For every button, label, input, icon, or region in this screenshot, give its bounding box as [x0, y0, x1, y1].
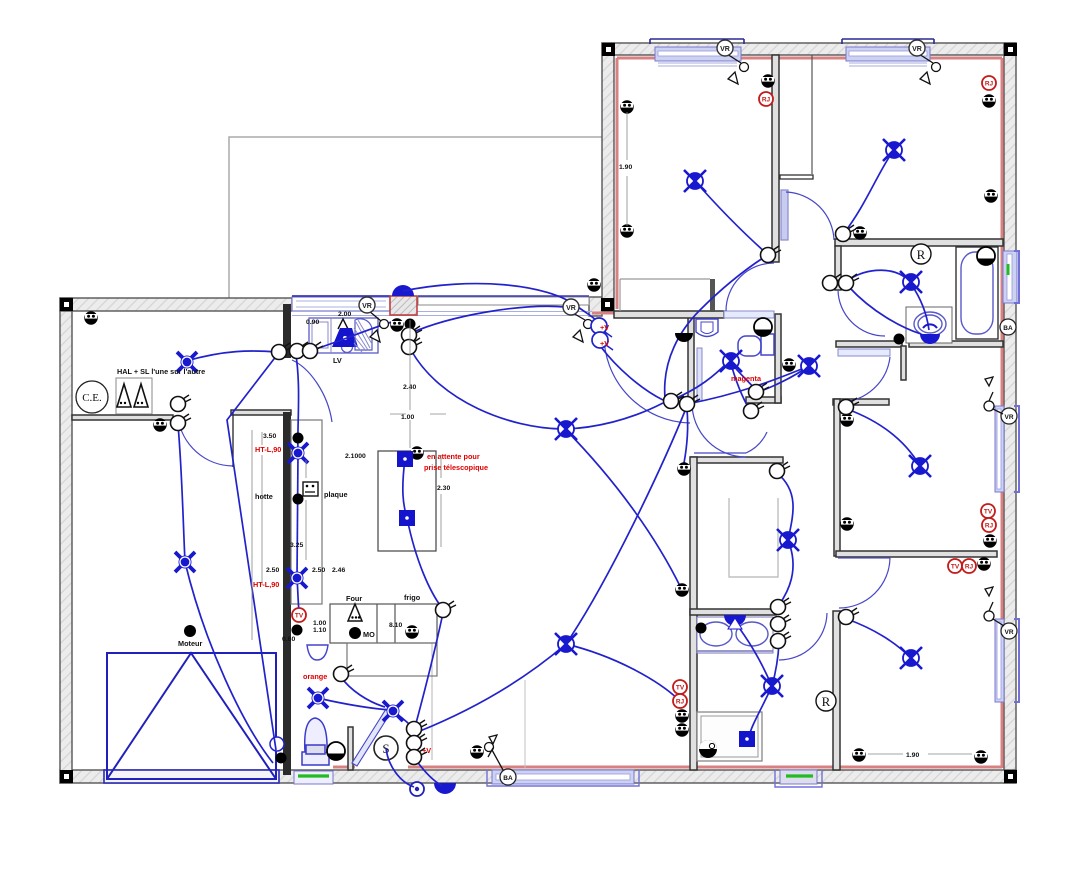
wire entry switch to applique [414, 757, 442, 786]
wire table squares [403, 459, 407, 518]
switch vjunction a [591, 318, 607, 334]
switch bath2 b [771, 615, 792, 632]
svg-text:2.00: 2.00 [338, 311, 351, 318]
blue square bath2 [739, 731, 755, 747]
switch kitchentop a [402, 326, 423, 343]
wire sejour light2 to entry applique [420, 644, 566, 731]
gray vertical line sejour-entry [524, 680, 526, 768]
switch hall b [171, 414, 192, 431]
window bottom bath2 [780, 770, 817, 784]
svg-text:1.10: 1.10 [313, 627, 326, 634]
svg-text:Four: Four [346, 594, 362, 603]
dot MO [349, 627, 361, 639]
socket sejour wall1 [677, 462, 690, 475]
WC washbasin small [696, 319, 718, 337]
triangles box hall [116, 378, 152, 414]
liner right wall [1001, 58, 1004, 768]
switch kitchen b [290, 342, 311, 359]
rj bedroom4 [962, 559, 976, 573]
socket sejour stack1 [675, 709, 688, 722]
svg-text:0.90: 0.90 [306, 319, 319, 326]
bathtub [956, 247, 998, 339]
switch vjunction b [592, 332, 608, 348]
svg-text:1.00: 1.00 [313, 620, 326, 627]
window bottom WC [294, 771, 333, 784]
socket bedroom2 right [984, 189, 997, 202]
BA circle bottom window [500, 769, 516, 785]
wire hall cluster to wc light [672, 363, 727, 400]
svg-text:VR: VR [1004, 629, 1013, 636]
wire sejour light1 to socket wall [565, 429, 681, 588]
wall: bedroom3 left [834, 399, 840, 556]
window wing top 1 [655, 47, 741, 61]
shower [697, 712, 762, 761]
washbasin bathroom1 [906, 307, 952, 343]
svg-text:+V: +V [600, 323, 609, 332]
tv bedroom3 [981, 504, 995, 518]
dot kitchen top [405, 319, 416, 330]
wall: main top right corner block [589, 297, 602, 316]
wire bedroom2 switch to light [844, 150, 894, 233]
lightf kitchen1 [288, 443, 308, 463]
wire bath1 light to applique [911, 284, 929, 330]
rj bedroom2 [982, 76, 996, 90]
light bathroom2 [761, 675, 783, 697]
outdoor applique entry [434, 783, 456, 794]
light sejour1 [555, 418, 577, 440]
svg-text:HAL + SL l'une sur l'autre: HAL + SL l'une sur l'autre [117, 367, 205, 376]
wire corridor light2 to bath switches [779, 540, 793, 605]
tv sejour [673, 680, 687, 694]
wire bedroom4 switch to light [847, 619, 911, 658]
wire hall switch to garage light [178, 425, 185, 562]
dot kitchen col3 [292, 625, 303, 636]
vr kitchen2 [563, 299, 579, 315]
switch bedroom4 [839, 608, 860, 625]
switch kitchen a [272, 343, 293, 360]
lightf hall [177, 352, 197, 372]
socket main topleft [84, 311, 97, 324]
wire stove sweep to hall [403, 284, 599, 326]
door cellier arc [178, 417, 233, 466]
wire hall cluster up to bedroom doors [665, 256, 766, 398]
svg-text:MO: MO [363, 630, 375, 639]
lightf garage [175, 552, 195, 572]
switch bedroom1 [761, 246, 782, 263]
light corridor2 [777, 529, 799, 551]
wire cluster down to socket [684, 410, 688, 463]
wall: stub below bath1 door [901, 346, 906, 380]
wall: cellier bottom right [231, 410, 291, 415]
wire switch to corridor light2 [777, 473, 793, 540]
svg-text:2.50: 2.50 [266, 567, 279, 574]
toilet entry WC [302, 718, 329, 765]
wire kitchen switches to sejour light1 [411, 350, 562, 429]
svg-text:HT-L,90: HT-L,90 [253, 580, 279, 589]
kitchen sink counter [309, 318, 378, 353]
socket sejour stack2 [675, 723, 688, 736]
flag right wall 1 [984, 401, 994, 411]
stove block on top wall [390, 285, 417, 315]
socket table [410, 446, 423, 459]
window bay sejour [418, 297, 589, 305]
light bedroom3 [909, 455, 931, 477]
lightf kitchen2 [287, 568, 307, 588]
wall: wing left [602, 43, 614, 311]
wall: bathroom1 left [835, 246, 841, 290]
plaque symbol [303, 482, 318, 496]
light sejour2 [555, 633, 577, 655]
window right wall 1 [1003, 251, 1017, 303]
window right wall 3 [995, 619, 1004, 702]
svg-text:R: R [822, 694, 831, 709]
wire kitchen light2 down [297, 578, 299, 611]
flag kitchen vr2 [573, 313, 585, 320]
kitchen counter along wall [291, 420, 437, 676]
door corridor leaf [694, 432, 767, 453]
blue square table1 [397, 451, 413, 467]
dot garage corner [276, 753, 287, 764]
socket right of wc [782, 358, 795, 371]
socket bedroom3 topleft [840, 413, 853, 426]
liner wing top [617, 57, 1002, 60]
svg-text:R: R [917, 247, 926, 262]
wire hall light to kitchen switches [186, 351, 277, 361]
wall: WC bottom [746, 397, 781, 403]
rj sejour [673, 694, 687, 708]
svg-text:plaque: plaque [324, 490, 348, 499]
switch bedroom2 [836, 225, 857, 242]
wire entry wc switch [341, 677, 385, 707]
wall: cellier bottom left [72, 415, 173, 420]
R circle bathroom1 [911, 244, 931, 264]
wall: entry stub [348, 727, 353, 770]
svg-text:LV: LV [333, 356, 342, 365]
dot kitchen col2 [293, 494, 304, 505]
svg-text:+V: +V [600, 339, 609, 348]
rj bedroom1 [759, 92, 773, 106]
svg-text:+V: +V [422, 746, 431, 755]
double washbasin bathroom2 [697, 617, 773, 653]
socket bedroom3 right [983, 534, 996, 547]
BA circle right wall 2 [1001, 623, 1017, 639]
wire kitchen switches to light1 [296, 355, 299, 453]
C.E. circle [76, 381, 108, 413]
door bathroom2 arc [779, 613, 827, 660]
terrace outline [229, 137, 602, 298]
wire table square2 to switch [407, 518, 442, 608]
liner main top kitchen [592, 312, 614, 315]
light bedroom2 [883, 139, 905, 161]
svg-text:Moteur: Moteur [178, 639, 202, 648]
switch hallcluster a [664, 392, 685, 409]
socket bedroom2 wallB [853, 226, 866, 239]
flag kitchen vr1 [369, 311, 381, 321]
wire bedroom3 switch to light [847, 409, 920, 466]
wall: left [60, 298, 72, 783]
wire entry stack to frigo switch [415, 613, 443, 727]
wire bath2 switch to light [772, 643, 779, 686]
applique bath2 triangle [728, 618, 742, 629]
gray L line sejour [729, 498, 778, 577]
socket frigo [405, 625, 418, 638]
door bedroom3 leaf [838, 349, 890, 356]
applique bath2 [724, 615, 746, 626]
vr kitchen1 [359, 297, 375, 313]
dot bath1 [894, 334, 905, 345]
socket bedroom4 bottom2 [974, 750, 987, 763]
door entry leaf [352, 709, 391, 766]
closet stub [710, 279, 715, 312]
svg-text:orange: orange [303, 672, 327, 681]
wall: main top left [60, 298, 292, 311]
door kitchen arc [292, 360, 332, 422]
wire S to outdoor light [386, 748, 414, 787]
switch kitchen c [303, 342, 324, 359]
switch hall a [171, 395, 192, 412]
big window bottom sejour [492, 770, 634, 784]
triangle four [348, 604, 362, 621]
light bedroom1 [684, 170, 706, 192]
table sejour [378, 451, 436, 551]
svg-text:BA: BA [1003, 325, 1013, 332]
switch frigo [436, 601, 457, 618]
wire garage light to door corner [185, 562, 273, 763]
R circle bathroom2 [816, 691, 836, 711]
wire wc light to switch [731, 363, 755, 389]
svg-text:2.46: 2.46 [332, 567, 345, 574]
light corridor1 [798, 355, 820, 377]
hdisc wc [754, 318, 772, 336]
switch garage corner [270, 737, 284, 751]
liner wing left [616, 58, 619, 309]
corner bottom-left [62, 772, 71, 781]
svg-text:magenta: magenta [731, 374, 762, 383]
socket bedroom1 top [761, 74, 774, 87]
wire hall to garage corner [227, 355, 277, 750]
VR right wall middle [1001, 408, 1017, 424]
lightf entry [383, 701, 403, 721]
svg-text:hotte: hotte [255, 492, 273, 501]
WC toilet middle [738, 334, 774, 356]
moteur dot [184, 625, 196, 637]
applique wc left [675, 333, 693, 342]
svg-text:1.90: 1.90 [619, 164, 632, 171]
wall: bedroom2 bottom [835, 239, 1003, 246]
flag wing vr1 [727, 54, 741, 63]
corner wing top-right [1006, 45, 1015, 54]
wire hall cluster to sejour light1 [565, 403, 663, 429]
shower drain circle [699, 740, 717, 758]
wire kitchen light1 to light2 [297, 453, 298, 578]
garage door band [104, 770, 279, 783]
corner wing top-left [604, 45, 613, 54]
switch kitchentop b [402, 338, 423, 355]
rj bedroom3 [982, 518, 996, 532]
svg-text:0.60: 0.60 [282, 636, 295, 643]
svg-text:en attente pour: en attente pour [427, 452, 480, 461]
switch bath1 a [823, 274, 844, 291]
lightf entrywc [308, 688, 328, 708]
lave vaisselle symbol [332, 319, 372, 352]
BA circle right wall 1 [1000, 319, 1016, 335]
flag wing vr2 [919, 54, 933, 63]
flag right wall 2 [984, 611, 994, 621]
socket bedroom3 left [840, 517, 853, 530]
S circle [374, 736, 398, 760]
wall: bedroom1 bottom [614, 311, 724, 318]
wire bedroom1 switch to light [695, 181, 766, 253]
switch wc b [744, 402, 765, 419]
light bathroom1 [900, 271, 922, 293]
svg-text:frigo: frigo [404, 593, 421, 602]
svg-text:prise télescopique: prise télescopique [424, 463, 488, 472]
socket kitchen top [390, 318, 403, 331]
window wing top 2 [846, 47, 930, 61]
switch corridor [770, 462, 791, 479]
wall: bathroom1 bottom [836, 341, 902, 347]
wire bath2 light to square [749, 686, 772, 737]
wall: WC right [775, 314, 781, 403]
wall: bottom [60, 770, 1016, 783]
dot bath2 [696, 623, 707, 634]
switch wc a [749, 383, 770, 400]
liner bottom wall [408, 766, 1002, 769]
door bedroom2 leaf [781, 190, 788, 240]
window bay kitchen [292, 297, 390, 311]
window sill lines wing [292, 63, 927, 316]
liner bottom wall left piece [333, 766, 355, 769]
wire hall cluster to corridor light [687, 366, 809, 404]
hdisc entry [327, 742, 345, 760]
wire stove to kitchen switches [312, 321, 395, 350]
door bedroom3 arc [841, 357, 890, 402]
svg-text:VR: VR [1004, 414, 1013, 421]
wire corridor light to wc switches [758, 366, 809, 392]
switch bath2 c [771, 632, 792, 649]
switch entrywc [334, 665, 355, 682]
socket entry bottom [470, 745, 483, 758]
window right wall 2 [995, 406, 1004, 492]
wall: wing top [602, 43, 1016, 55]
svg-text:3.50: 3.50 [263, 433, 276, 440]
outdoor light entry [410, 782, 424, 796]
socket bedroom2 top [982, 94, 995, 107]
svg-text:BA: BA [503, 775, 513, 782]
wire entry switch to light [393, 711, 414, 729]
corner bottom-right [1006, 772, 1015, 781]
wall: bath2 top [690, 609, 776, 615]
wall: wing bedroom partition [772, 55, 779, 262]
switch bath1 b [839, 274, 860, 291]
wall: right [1004, 43, 1016, 783]
garage door [107, 653, 276, 779]
wire entry light to wc light [322, 699, 390, 710]
socket wing left lower [620, 224, 633, 237]
corner main top-left [62, 300, 71, 309]
flag entry bottom [485, 743, 494, 752]
svg-text:1.90: 1.90 [906, 752, 919, 759]
door bedroom1 opening [724, 311, 774, 318]
switch bedroom3 [839, 398, 860, 415]
wire sejour light2 to tv stack [566, 644, 679, 700]
socket sejour wall2 [675, 583, 688, 596]
wall: sejour-bath2 separation [690, 457, 697, 770]
tv kitchen [292, 608, 306, 622]
socket bedroom4 corner [977, 557, 990, 570]
dot kitchen col1 [293, 433, 304, 444]
vr wing1 [717, 40, 733, 56]
svg-text:C.E.: C.E. [82, 392, 102, 404]
light bedroom4 [900, 647, 922, 669]
tv bedroom4 [948, 559, 962, 573]
socket wing left upper [620, 100, 633, 113]
svg-text:3.25: 3.25 [290, 542, 303, 549]
closet lines bedroom2 [811, 55, 813, 174]
socket bedroom4 bottom1 [852, 748, 865, 761]
door bathroom1 arc [838, 290, 885, 336]
switch entry a [407, 720, 428, 737]
socket terrace corner [587, 278, 600, 291]
light wc [720, 350, 742, 372]
svg-text:2.50: 2.50 [312, 567, 325, 574]
gray vertical line entry hall [431, 604, 433, 760]
svg-text:1.00: 1.00 [401, 414, 414, 421]
switch entry b [407, 734, 428, 751]
hdisc bath1 right [977, 247, 995, 265]
svg-text:2.1000: 2.1000 [345, 453, 366, 460]
wall: corridor top [691, 457, 783, 463]
switch entry c [407, 748, 428, 765]
blue square table2 [399, 510, 415, 526]
red inner liner [333, 58, 1002, 768]
socket hall [153, 418, 166, 431]
svg-text:HT-L,90: HT-L,90 [255, 445, 281, 454]
switch bath2 a [771, 598, 792, 615]
corner squares [62, 45, 1015, 781]
door hall leaf [697, 348, 702, 401]
wall: garage dark separation [283, 304, 291, 775]
closet lines bedroom1 [620, 279, 710, 311]
vr wing2 [909, 40, 925, 56]
wall: WC left [688, 314, 694, 403]
wire sejour diagonal hall to light2 [566, 406, 687, 644]
door bedroom1 arc [726, 263, 774, 311]
applique basin1 [920, 324, 940, 344]
wall: corridor bottom / bedroom3 top [833, 399, 889, 405]
door bedroom2 arc [786, 192, 834, 240]
door bedroom3-south arc [839, 558, 890, 608]
wire bath1 switch to light [848, 270, 908, 280]
svg-text:8.10: 8.10 [389, 622, 402, 629]
door bedroom3-south leaf [838, 557, 890, 559]
lave-mains entry [307, 645, 328, 660]
corner wing junction [603, 300, 612, 309]
svg-text:2.30: 2.30 [437, 485, 450, 492]
wire vr circles to hall [601, 347, 663, 400]
wire bath2 applique [737, 625, 771, 684]
switch hallcluster b [680, 395, 701, 412]
door cellier leaf [232, 412, 234, 467]
door hall big arc [604, 333, 690, 423]
wall: bedroom3 bottom [836, 551, 997, 557]
door WC arc [692, 403, 746, 457]
wall: bedroom4 left [833, 611, 840, 770]
